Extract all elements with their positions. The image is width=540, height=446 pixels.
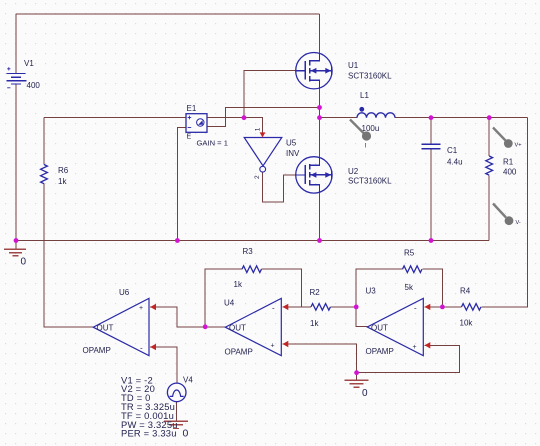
svg-text:-: -: [140, 344, 143, 353]
resistor R1: [486, 156, 493, 175]
svg-text:OPAMP: OPAMP: [366, 347, 394, 356]
node R5 right: [440, 305, 445, 310]
wire mid-ground stub: [356, 373, 358, 380]
resistor R4: [462, 304, 481, 311]
wire R5 left lead: [356, 269, 402, 307]
wire L1 to output node: [395, 117, 528, 119]
node U3 output feedback: [354, 305, 359, 310]
node ground rail left: [14, 238, 19, 243]
svg-text:400: 400: [503, 168, 517, 177]
svg-text:V+: V+: [515, 143, 522, 149]
svg-text:1k: 1k: [58, 177, 67, 186]
wire U1 source to U2 drain: [319, 80, 321, 165]
pulse source V4: [167, 376, 193, 402]
wire ground to U3 plus: [357, 345, 460, 372]
svg-text:SCT3160KL: SCT3160KL: [348, 72, 392, 81]
node C1 bottom on rail: [429, 238, 434, 243]
svg-text:4.4u: 4.4u: [447, 158, 463, 167]
svg-text:2: 2: [254, 175, 261, 179]
voltage source V1: [7, 74, 27, 85]
controlled source E1: [186, 104, 228, 148]
svg-text:U1: U1: [348, 61, 359, 70]
wire U4 plus feedback to ground: [283, 344, 357, 373]
wire output node down to R4: [482, 118, 528, 307]
node switch to L1: [317, 115, 322, 120]
svg-text:-: -: [414, 304, 417, 313]
voltage probe V+ top right: [493, 128, 522, 149]
current probe at L1: [350, 120, 371, 150]
svg-text:1k: 1k: [310, 319, 319, 328]
svg-text:0: 0: [362, 388, 368, 399]
wire R1 bottom lead: [488, 176, 490, 241]
input port arrow: [260, 132, 266, 137]
wire V1 top lead: [15, 14, 17, 74]
svg-text:10k: 10k: [460, 319, 474, 328]
svg-text:0: 0: [21, 257, 27, 268]
svg-text:V1: V1: [24, 59, 34, 68]
node U2 source on rail: [317, 238, 322, 243]
svg-text:R1: R1: [503, 158, 514, 167]
wire U3 minus input to R4: [425, 306, 462, 308]
svg-text:OUT: OUT: [229, 324, 246, 333]
ground 0 left: [4, 249, 26, 256]
inverter U5: [244, 127, 300, 179]
wire E1 minus input to ground rail: [177, 128, 186, 241]
svg-text:0: 0: [183, 428, 189, 440]
wire R2 right lead: [331, 306, 357, 308]
node E1 minus on rail: [175, 238, 180, 243]
node mid ground: [354, 370, 359, 375]
node R1 top: [487, 115, 492, 120]
wire U2 source to ground rail: [319, 184, 321, 240]
svg-text:OUT: OUT: [371, 324, 388, 333]
svg-text:SCT3160KL: SCT3160KL: [348, 177, 392, 186]
ground 0 under V4: [164, 421, 188, 428]
svg-text:+: +: [413, 344, 417, 351]
wire U4 minus input to R2: [283, 306, 312, 308]
svg-text:U4: U4: [224, 299, 235, 308]
wire R5 right lead: [423, 269, 443, 307]
svg-text:R4: R4: [460, 287, 471, 296]
svg-text:R5: R5: [404, 249, 415, 258]
wire V1 bottom lead: [15, 84, 17, 249]
svg-text:R6: R6: [58, 166, 69, 175]
svg-text:400: 400: [27, 81, 41, 90]
ground 0 middle: [345, 380, 369, 387]
svg-text:+: +: [271, 343, 275, 350]
svg-text:PER = 3.33u: PER = 3.33u: [121, 428, 177, 439]
svg-text:V-: V-: [516, 220, 521, 226]
voltage probe V- bottom right: [493, 204, 521, 227]
resistor R3: [242, 266, 261, 273]
svg-text:E: E: [187, 134, 192, 141]
svg-text:E1: E1: [187, 104, 197, 113]
svg-text:R2: R2: [310, 288, 321, 297]
svg-text:L1: L1: [360, 91, 369, 100]
node R3 tap on U4 output: [203, 324, 208, 329]
capacitor C1: [422, 144, 441, 148]
svg-text:-: -: [272, 304, 275, 313]
resistor R6: [41, 165, 48, 184]
wire mid drive net: [44, 117, 186, 119]
resistor R2: [311, 304, 330, 311]
svg-text:GAIN = 1: GAIN = 1: [197, 139, 228, 148]
svg-text:U3: U3: [366, 287, 377, 296]
wire ground rail: [16, 240, 489, 242]
wire V4 to ground: [176, 402, 178, 421]
svg-text:1: 1: [255, 127, 262, 131]
wire C1 bottom lead: [430, 149, 432, 241]
wire INV output to U2 gate: [263, 172, 297, 202]
wire U1 drain: [319, 14, 321, 61]
svg-text:V4: V4: [183, 376, 193, 385]
svg-text:C1: C1: [447, 146, 458, 155]
wire E1 output: [207, 108, 320, 127]
op-amp U6: [83, 288, 157, 356]
svg-text:+: +: [139, 305, 143, 312]
V4 parameter text: [121, 374, 178, 438]
wire R3 left lead: [205, 269, 242, 327]
svg-text:INV: INV: [286, 149, 300, 158]
wire top rail: [16, 13, 320, 15]
svg-text:1k: 1k: [234, 280, 243, 289]
svg-text:OUT: OUT: [97, 324, 114, 333]
op-amp U3: [366, 287, 431, 357]
svg-text:OPAMP: OPAMP: [225, 348, 253, 357]
mosfet U1: [296, 52, 392, 88]
wire U6 plus input to U4 output: [150, 307, 225, 327]
svg-text:R3: R3: [243, 247, 254, 256]
wire R6 top lead: [43, 118, 45, 165]
wire U6 minus input to V4: [150, 347, 177, 383]
mosfet U2: [296, 157, 392, 193]
svg-text:U5: U5: [286, 139, 297, 148]
node drive/gate junction: [242, 115, 247, 120]
svg-text:U6: U6: [119, 288, 130, 297]
svg-text:100u: 100u: [362, 124, 380, 133]
node E1 out on switch column: [317, 105, 322, 110]
wire R1 top lead: [488, 118, 490, 156]
wire C1 top lead: [430, 118, 432, 144]
op-amp U4: [224, 298, 288, 356]
wire U3 output branch: [356, 307, 367, 326]
wire U1 gate branch: [244, 71, 296, 118]
wire switch node to L1: [320, 117, 358, 119]
svg-text:OPAMP: OPAMP: [83, 346, 111, 355]
svg-text:5k: 5k: [405, 283, 414, 292]
wire drive net to INV input: [207, 118, 263, 133]
inductor L1: [357, 91, 395, 133]
wire R6 bottom to U6 output: [44, 184, 93, 328]
resistor R5: [403, 266, 422, 273]
svg-text:U2: U2: [348, 167, 359, 176]
wire R3 right lead: [262, 269, 302, 307]
node C1 top: [429, 115, 434, 120]
